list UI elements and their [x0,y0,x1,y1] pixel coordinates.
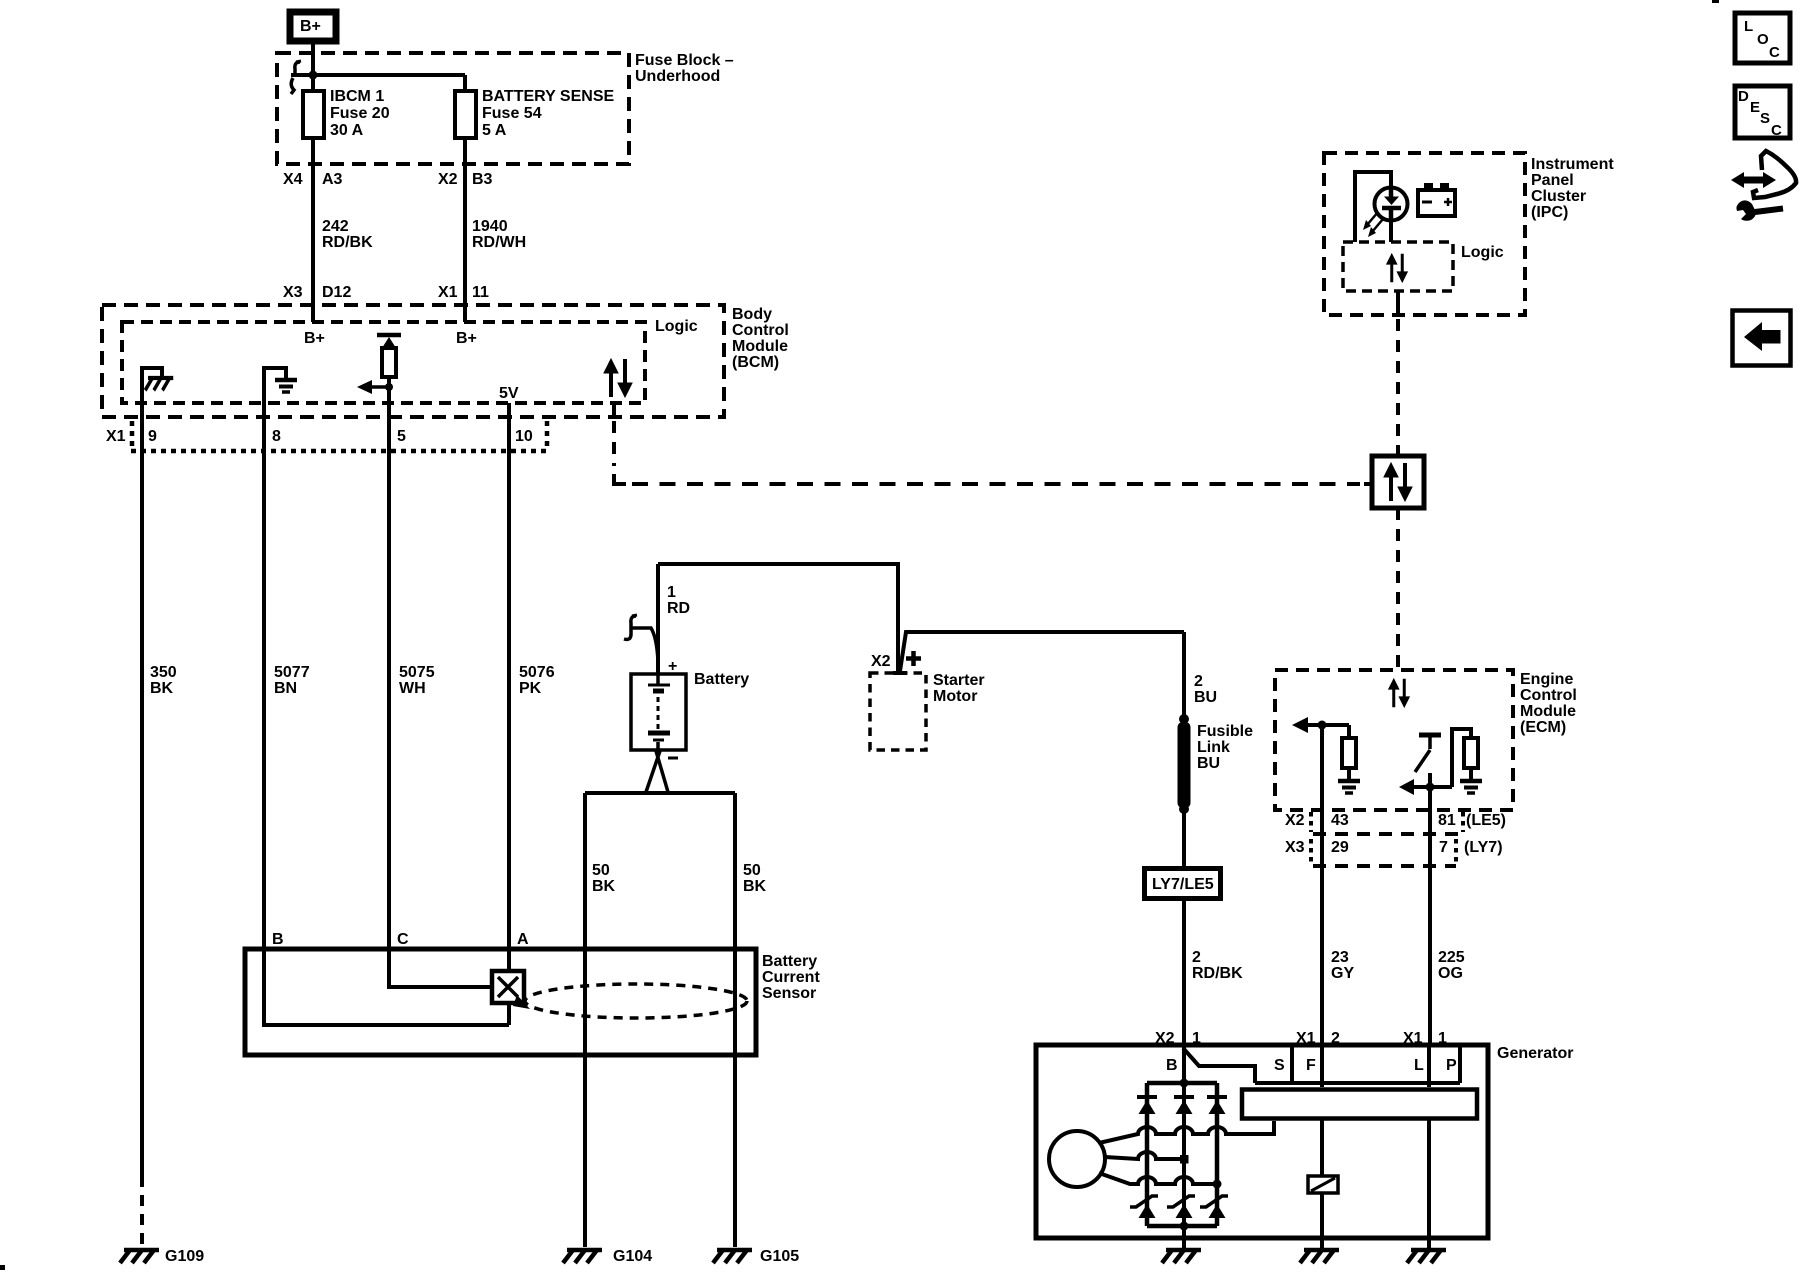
svg-text:L: L [1744,18,1753,35]
svg-text:5 A: 5 A [482,122,507,139]
svg-text:5075: 5075 [399,664,435,681]
svg-text:Link: Link [1197,739,1230,756]
svg-text:B+: B+ [300,18,321,35]
svg-text:50: 50 [592,862,610,879]
svg-text:PK: PK [519,680,542,697]
svg-text:Module: Module [1520,703,1576,720]
svg-text:Control: Control [1520,687,1577,704]
svg-text:L: L [1414,1057,1424,1074]
svg-text:Logic: Logic [1461,244,1504,261]
svg-text:1: 1 [1438,1030,1447,1047]
svg-text:5: 5 [397,428,406,445]
svg-text:8: 8 [272,428,281,445]
svg-text:1940: 1940 [472,218,508,235]
svg-text:350: 350 [150,664,177,681]
svg-text:BK: BK [743,878,767,895]
svg-text:X4: X4 [283,171,303,188]
svg-text:X1: X1 [1403,1030,1423,1047]
svg-text:(IPC): (IPC) [1531,204,1568,221]
svg-text:Sensor: Sensor [762,985,816,1002]
svg-text:X2: X2 [1155,1030,1175,1047]
svg-text:G105: G105 [760,1248,799,1265]
svg-text:Engine: Engine [1520,671,1573,688]
svg-text:C: C [1769,44,1780,61]
svg-text:5077: 5077 [274,664,310,681]
svg-text:(BCM): (BCM) [732,354,779,371]
svg-text:B: B [272,931,284,948]
svg-text:23: 23 [1331,949,1349,966]
svg-text:43: 43 [1331,812,1349,829]
svg-text:OG: OG [1438,965,1463,982]
svg-text:+: + [668,658,677,675]
svg-text:X3: X3 [283,284,303,301]
svg-text:O: O [1757,31,1769,48]
svg-text:9: 9 [148,428,157,445]
svg-text:X1: X1 [1296,1030,1316,1047]
svg-text:Generator: Generator [1497,1045,1573,1062]
svg-text:10: 10 [515,428,533,445]
svg-text:Fusible: Fusible [1197,723,1253,740]
svg-text:Motor: Motor [933,688,977,705]
svg-text:S: S [1274,1057,1285,1074]
svg-text:Battery: Battery [762,953,817,970]
svg-text:Fuse 20: Fuse 20 [330,105,390,122]
svg-text:5076: 5076 [519,664,555,681]
svg-text:WH: WH [399,680,426,697]
svg-text:A3: A3 [322,171,343,188]
svg-text:RD/BK: RD/BK [322,234,373,251]
svg-text:1: 1 [1192,1030,1201,1047]
svg-text:BU: BU [1194,689,1217,706]
svg-text:Body: Body [732,306,772,323]
svg-text:X2: X2 [1285,812,1305,829]
svg-text:Current: Current [762,969,820,986]
svg-text:225: 225 [1438,949,1465,966]
svg-text:X3: X3 [1285,839,1305,856]
svg-text:X2: X2 [438,171,458,188]
svg-text:IBCM 1: IBCM 1 [330,88,384,105]
svg-text:(ECM): (ECM) [1520,719,1566,736]
svg-text:Battery: Battery [694,671,749,688]
svg-text:29: 29 [1331,839,1349,856]
svg-text:(LY7): (LY7) [1464,839,1503,856]
svg-text:B: B [1166,1057,1178,1074]
svg-text:E: E [1750,99,1760,116]
svg-text:81: 81 [1438,812,1456,829]
svg-text:G104: G104 [613,1248,652,1265]
svg-text:A: A [517,931,529,948]
svg-text:D: D [1738,88,1749,105]
svg-text:Logic: Logic [655,318,698,335]
svg-text:2: 2 [1192,949,1201,966]
svg-text:P: P [1446,1057,1457,1074]
svg-text:Panel: Panel [1531,172,1574,189]
svg-text:Cluster: Cluster [1531,188,1586,205]
svg-text:7: 7 [1439,839,1448,856]
svg-text:50: 50 [743,862,761,879]
svg-text:Starter: Starter [933,672,985,689]
svg-text:S: S [1760,110,1770,127]
svg-text:30 A: 30 A [330,122,364,139]
svg-text:5V: 5V [499,385,519,402]
svg-text:F: F [1306,1057,1316,1074]
svg-text:X2: X2 [871,653,891,670]
svg-text:1: 1 [667,584,676,601]
svg-text:Fuse Block –: Fuse Block – [635,52,734,69]
svg-text:B+: B+ [304,330,325,347]
svg-text:B3: B3 [472,171,493,188]
svg-text:C: C [397,931,409,948]
svg-text:Module: Module [732,338,788,355]
svg-text:BATTERY SENSE: BATTERY SENSE [482,88,615,105]
svg-text:11: 11 [472,284,489,301]
svg-text:G109: G109 [165,1248,204,1265]
svg-text:BK: BK [150,680,174,697]
svg-text:RD/WH: RD/WH [472,234,526,251]
svg-text:LY7/LE5: LY7/LE5 [1152,876,1214,893]
svg-text:Instrument: Instrument [1531,156,1614,173]
svg-text:(LE5): (LE5) [1466,812,1506,829]
svg-text:BK: BK [592,878,616,895]
svg-text:RD: RD [667,600,690,617]
svg-text:Underhood: Underhood [635,68,720,85]
svg-text:Control: Control [732,322,789,339]
svg-text:BU: BU [1197,755,1220,772]
svg-text:C: C [1771,122,1782,139]
svg-text:D12: D12 [322,284,351,301]
svg-text:B+: B+ [456,330,477,347]
svg-text:X1: X1 [106,428,126,445]
svg-text:BN: BN [274,680,297,697]
svg-text:Fuse 54: Fuse 54 [482,105,542,122]
svg-text:GY: GY [1331,965,1354,982]
svg-text:242: 242 [322,218,349,235]
svg-text:X1: X1 [438,284,458,301]
svg-text:2: 2 [1194,673,1203,690]
svg-text:RD/BK: RD/BK [1192,965,1243,982]
svg-text:2: 2 [1331,1030,1340,1047]
